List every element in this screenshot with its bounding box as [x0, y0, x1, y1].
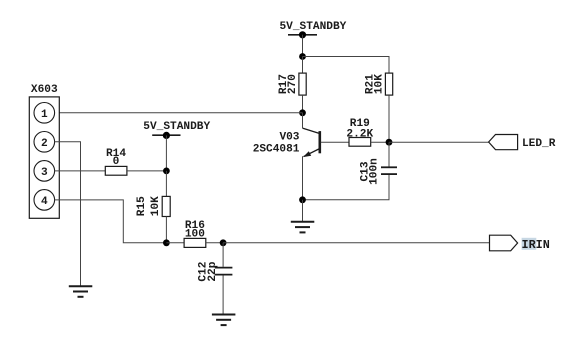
pin 2	[34, 132, 55, 153]
pin 1	[34, 103, 55, 124]
wire node D to C12	[222, 243, 224, 267]
resistor R17	[278, 73, 306, 95]
wire R15 bottom to node C	[165, 217, 167, 243]
wire collector node to connector pin 1	[55, 112, 303, 114]
junction node C	[163, 239, 170, 246]
pin 3	[34, 161, 55, 182]
svg-text:270: 270	[287, 74, 299, 94]
svg-text:5V_STANDBY: 5V_STANDBY	[143, 121, 210, 133]
svg-text:X603: X603	[31, 84, 58, 96]
wire pin 3 to R14	[55, 170, 106, 172]
svg-text:1: 1	[41, 109, 48, 121]
svg-text:LED_R: LED_R	[522, 138, 556, 150]
wire node D to IRIN port	[223, 242, 489, 244]
svg-text:100n: 100n	[368, 158, 380, 185]
svg-text:2SC4081: 2SC4081	[253, 143, 300, 155]
svg-text:22p: 22p	[207, 261, 219, 281]
wire emitter node to ground	[302, 200, 304, 222]
svg-text:IRIN: IRIN	[522, 238, 550, 252]
wire R19 to node E	[371, 141, 389, 143]
wire node E to C13	[388, 142, 390, 166]
junction emitter node	[299, 196, 306, 203]
wire node B to R15 top	[165, 171, 167, 197]
wire R14 to node B	[127, 170, 166, 172]
transistor V03 2SC4081	[253, 128, 320, 157]
svg-text:V03: V03	[279, 132, 299, 144]
wire node C to R16	[166, 242, 184, 244]
svg-text:10K: 10K	[373, 74, 385, 94]
wire C13 to emitter node	[303, 175, 390, 200]
wire node A to R21 top	[303, 57, 390, 74]
connector X603	[29, 84, 59, 218]
capacitor C13	[359, 158, 397, 185]
junction node E	[386, 139, 393, 146]
wire R17 to collector node	[302, 95, 304, 113]
wire collector node to transistor collector	[302, 113, 304, 128]
svg-text:5V_STANDBY: 5V_STANDBY	[280, 21, 347, 33]
wire 5V_STANDBY (middle) to node B	[165, 135, 167, 171]
wire node E to LED_R port	[389, 141, 489, 143]
resistor R15	[136, 196, 170, 217]
port LED_R	[489, 135, 556, 150]
svg-text:R15: R15	[136, 196, 148, 216]
wire transistor base to R19	[321, 141, 349, 143]
wire C12 to ground	[222, 276, 224, 315]
svg-text:10K: 10K	[150, 196, 162, 216]
junction node B	[163, 168, 170, 175]
resistor R21	[364, 73, 392, 95]
wire transistor emitter to emitter node	[302, 156, 304, 200]
junction collector node	[299, 109, 306, 116]
capacitor C12	[197, 261, 232, 281]
pin 4	[34, 190, 55, 211]
resistor R16	[184, 220, 206, 247]
svg-text:4: 4	[41, 196, 48, 208]
power symbol 5V_STANDBY (middle)	[143, 121, 210, 139]
wire pin 2 to ground	[55, 142, 81, 286]
wire R16 to node D	[206, 242, 223, 244]
port IRIN	[490, 235, 550, 252]
ground (below C12)	[212, 315, 236, 326]
ground (below transistor)	[291, 222, 315, 233]
resistor R19	[346, 118, 373, 146]
ground (below connector)	[69, 286, 93, 297]
wire pin 4 to node C	[55, 200, 167, 243]
junction node A	[299, 53, 306, 60]
resistor R14	[105, 148, 127, 175]
svg-text:3: 3	[41, 167, 48, 179]
svg-text:2: 2	[41, 138, 48, 150]
wire R21 to base node	[388, 95, 390, 142]
junction node D	[220, 239, 227, 246]
power symbol 5V_STANDBY (top)	[280, 21, 347, 38]
wire 5V_STANDBY to node A	[302, 35, 304, 57]
wire node A to R17 top	[302, 57, 304, 74]
